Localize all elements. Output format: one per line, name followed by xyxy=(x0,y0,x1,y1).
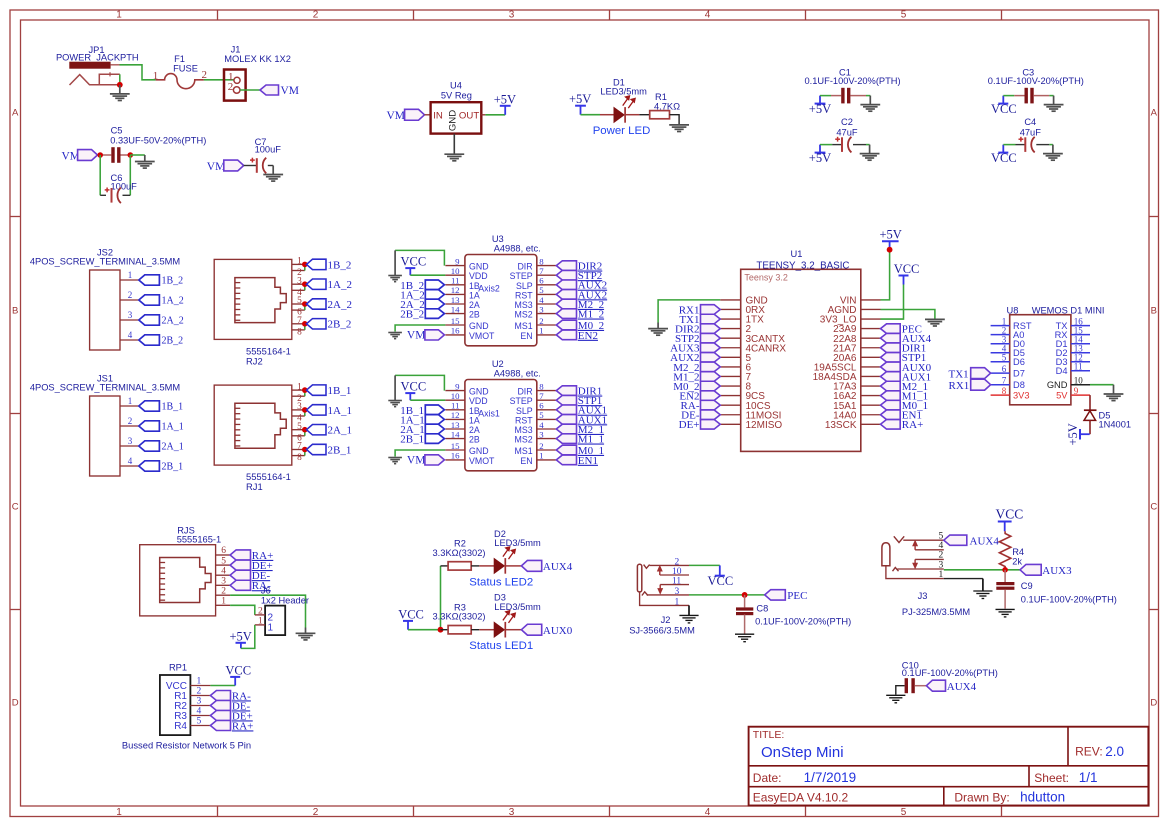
svg-text:6: 6 xyxy=(221,546,226,556)
svg-text:0.1UF-100V-20%(PTH): 0.1UF-100V-20%(PTH) xyxy=(988,76,1084,86)
svg-text:VM: VM xyxy=(407,455,426,467)
capacitor C7 100uF xyxy=(244,137,282,173)
svg-text:7: 7 xyxy=(1002,376,1007,386)
svg-text:M1_1: M1_1 xyxy=(578,434,604,446)
svg-text:AUX3: AUX3 xyxy=(1042,565,1072,577)
svg-text:RJ2: RJ2 xyxy=(246,355,263,366)
svg-text:OnStep Mini: OnStep Mini xyxy=(761,744,844,761)
svg-text:5: 5 xyxy=(221,556,226,566)
net flag 2A_2 xyxy=(139,315,184,327)
power VCC xyxy=(401,380,427,401)
svg-text:RST: RST xyxy=(515,290,533,300)
net flag EN2 xyxy=(679,391,720,403)
net flag 2B_2 xyxy=(302,319,351,331)
svg-text:GND: GND xyxy=(448,110,459,131)
svg-text:5: 5 xyxy=(938,532,943,542)
svg-text:U1: U1 xyxy=(791,249,803,259)
LED D3 LED3/5mm xyxy=(479,593,541,638)
connector JP1 POWER_JACKPTH xyxy=(56,45,139,85)
svg-text:0.33UF-50V-20%(PTH): 0.33UF-50V-20%(PTH) xyxy=(110,136,206,146)
power +5V xyxy=(809,145,831,166)
svg-text:LED3/5mm: LED3/5mm xyxy=(600,86,647,96)
net flag M0_2 xyxy=(556,320,604,332)
net flag RA- xyxy=(681,400,721,412)
svg-text:C8: C8 xyxy=(756,604,768,614)
svg-text:2.0: 2.0 xyxy=(1105,744,1124,759)
svg-text:4: 4 xyxy=(539,295,544,305)
wire xyxy=(240,89,260,91)
svg-text:PJ-325M/3.5MM: PJ-325M/3.5MM xyxy=(902,607,970,617)
net flag 1B_1 xyxy=(400,405,444,417)
svg-text:B: B xyxy=(1151,306,1157,317)
svg-text:Status LED2: Status LED2 xyxy=(469,576,533,588)
wire xyxy=(395,450,445,457)
svg-text:OUT: OUT xyxy=(459,110,479,121)
svg-text:POWER_JACKPTH: POWER_JACKPTH xyxy=(56,52,139,62)
svg-text:2: 2 xyxy=(539,441,543,451)
net flag STP2 xyxy=(556,270,602,282)
stepper driver U2 A4988 xyxy=(445,359,556,471)
net flag TX1 xyxy=(679,314,720,326)
svg-text:Status LED1: Status LED1 xyxy=(469,640,533,652)
net flag M0_2 xyxy=(673,381,720,393)
svg-text:DE+: DE+ xyxy=(679,419,700,431)
svg-text:C9: C9 xyxy=(1021,581,1033,591)
svg-text:11: 11 xyxy=(672,577,681,587)
net flag RX1 xyxy=(949,379,991,392)
svg-text:16: 16 xyxy=(451,326,460,336)
svg-text:Drawn By:: Drawn By: xyxy=(954,791,1009,805)
svg-text:VCC: VCC xyxy=(401,380,427,394)
svg-text:4: 4 xyxy=(705,807,711,818)
svg-text:1x2 Header: 1x2 Header xyxy=(261,595,309,605)
ground xyxy=(263,166,283,182)
ground xyxy=(679,605,698,623)
svg-text:5: 5 xyxy=(539,410,544,420)
net flag DE+ xyxy=(210,710,252,722)
net flag 1A_2 xyxy=(302,279,352,291)
svg-text:GND: GND xyxy=(469,321,489,331)
svg-text:VDD: VDD xyxy=(469,271,488,281)
net flag 2B_1 xyxy=(400,434,444,446)
svg-text:3.3KΩ(3302): 3.3KΩ(3302) xyxy=(433,548,486,558)
svg-text:4POS_SCREW_TERMINAL_3.5MM: 4POS_SCREW_TERMINAL_3.5MM xyxy=(30,383,180,393)
svg-text:8: 8 xyxy=(297,328,302,338)
net flag AUX4 xyxy=(944,535,1000,547)
capacitor C4 47uF xyxy=(1003,117,1053,152)
svg-text:TX1: TX1 xyxy=(949,369,969,381)
svg-text:4: 4 xyxy=(197,707,202,717)
power +5V xyxy=(1066,423,1090,445)
net flag DIR1 xyxy=(556,386,602,398)
connector J3 PJ-325M/3.5MM xyxy=(882,532,970,618)
svg-text:1B_2: 1B_2 xyxy=(328,259,352,271)
svg-text:5: 5 xyxy=(901,807,907,818)
wire xyxy=(689,564,720,566)
ground xyxy=(944,579,993,599)
power VCC xyxy=(398,607,424,629)
svg-text:2B_1: 2B_1 xyxy=(400,434,424,446)
svg-text:5: 5 xyxy=(539,285,544,295)
net flag 1A_2 xyxy=(400,290,444,302)
net flag M2_2 xyxy=(673,362,720,374)
svg-text:2: 2 xyxy=(258,607,263,617)
ground xyxy=(996,609,1015,617)
net flag DE- xyxy=(230,570,270,582)
svg-text:EN: EN xyxy=(520,456,532,466)
net flag 1A_1 xyxy=(139,421,184,433)
svg-text:GND: GND xyxy=(1047,380,1068,390)
net flag AUX2 xyxy=(670,352,720,364)
svg-text:2B_2: 2B_2 xyxy=(162,336,184,347)
ground xyxy=(925,319,945,326)
svg-text:D7: D7 xyxy=(1013,369,1025,379)
svg-text:VM: VM xyxy=(407,330,426,342)
svg-text:B: B xyxy=(12,306,18,317)
capacitor C10 0.1UF-100V-20%(PTH) xyxy=(896,660,998,694)
svg-text:2k: 2k xyxy=(1012,557,1022,567)
label Status LED2 xyxy=(469,576,533,588)
power VCC xyxy=(991,145,1017,166)
svg-text:14: 14 xyxy=(451,304,460,314)
svg-text:+5V: +5V xyxy=(1066,423,1080,445)
ground xyxy=(110,85,130,101)
svg-text:1: 1 xyxy=(675,597,680,607)
svg-text:2B: 2B xyxy=(469,435,480,445)
wire xyxy=(100,155,145,195)
svg-text:2: 2 xyxy=(938,551,943,561)
svg-text:5: 5 xyxy=(901,10,907,21)
svg-text:STEP: STEP xyxy=(510,271,533,281)
svg-text:Sheet:: Sheet: xyxy=(1034,771,1069,785)
svg-text:2A_1: 2A_1 xyxy=(162,442,184,453)
svg-text:6: 6 xyxy=(1002,364,1007,374)
svg-text:3: 3 xyxy=(297,276,302,286)
svg-text:11: 11 xyxy=(451,401,459,411)
svg-text:2: 2 xyxy=(313,10,319,21)
svg-text:4CANRX: 4CANRX xyxy=(746,343,787,354)
net flag 1A_1 xyxy=(302,405,352,417)
svg-text:8: 8 xyxy=(539,381,544,391)
svg-text:VCC: VCC xyxy=(225,663,251,677)
svg-text:3: 3 xyxy=(297,402,302,412)
svg-text:1: 1 xyxy=(539,326,543,336)
net flag STP2 xyxy=(675,333,720,345)
svg-text:EN2: EN2 xyxy=(578,330,598,342)
svg-text:VM: VM xyxy=(207,161,226,173)
svg-text:J2: J2 xyxy=(661,615,671,625)
wire xyxy=(120,65,156,85)
svg-text:MS2: MS2 xyxy=(515,435,533,445)
svg-text:2B_2: 2B_2 xyxy=(400,309,424,321)
label Bussed Resistor Network 5 Pin xyxy=(122,739,251,750)
svg-text:AUX4: AUX4 xyxy=(947,681,977,693)
LED D2 LED3/5mm xyxy=(479,529,541,574)
svg-text:1A_1: 1A_1 xyxy=(328,405,352,417)
svg-text:1A_2: 1A_2 xyxy=(162,296,184,307)
power +5V xyxy=(880,228,902,250)
net flag 2A_2 xyxy=(302,299,352,311)
svg-text:Axis2: Axis2 xyxy=(478,283,500,293)
svg-text:1A_1: 1A_1 xyxy=(162,422,184,433)
svg-text:1: 1 xyxy=(539,451,543,461)
svg-text:13: 13 xyxy=(451,420,460,430)
svg-text:12: 12 xyxy=(451,410,460,420)
svg-text:2A: 2A xyxy=(469,425,480,435)
svg-text:SLP: SLP xyxy=(516,281,533,291)
svg-text:2B_1: 2B_1 xyxy=(162,462,184,473)
net flag M1_1 xyxy=(556,434,604,446)
svg-text:D: D xyxy=(12,698,19,709)
svg-text:RX1: RX1 xyxy=(949,380,970,392)
wire xyxy=(881,250,890,300)
net flag AUX0 xyxy=(521,624,572,637)
power +5V xyxy=(809,96,831,117)
net flag M2_2 xyxy=(556,299,604,311)
svg-text:16: 16 xyxy=(451,451,460,461)
net flag 1A_1 xyxy=(400,415,444,427)
svg-text:LED3/5mm: LED3/5mm xyxy=(494,538,541,548)
net flag RA+ xyxy=(210,720,253,732)
net flag AUX3 xyxy=(670,343,720,355)
svg-text:3: 3 xyxy=(509,807,515,818)
svg-text:SLP: SLP xyxy=(516,406,533,416)
svg-text:Axis1: Axis1 xyxy=(478,408,500,418)
svg-text:3: 3 xyxy=(128,436,133,446)
net flag 1B_1 xyxy=(139,401,183,413)
svg-text:2B_2: 2B_2 xyxy=(328,319,352,331)
svg-text:13: 13 xyxy=(451,295,460,305)
connector RJ2 5555164-1 xyxy=(214,257,305,367)
net flag RA+ xyxy=(881,419,924,431)
svg-text:DIR: DIR xyxy=(517,387,532,397)
svg-text:12: 12 xyxy=(451,285,460,295)
svg-text:7: 7 xyxy=(297,442,302,452)
svg-text:0.1UF-100V-20%(PTH): 0.1UF-100V-20%(PTH) xyxy=(902,668,998,678)
net flag 2B_2 xyxy=(400,309,444,321)
svg-text:3: 3 xyxy=(197,697,202,707)
stepper driver U3 A4988 xyxy=(445,234,556,346)
svg-text:TITLE:: TITLE: xyxy=(753,729,785,741)
svg-text:VM: VM xyxy=(387,110,406,122)
svg-text:D4: D4 xyxy=(1056,366,1068,376)
capacitor C9 0.1UF-100V-20%(PTH) xyxy=(996,570,1117,609)
capacitor C1 0.1UF-100V-20%(PTH) xyxy=(805,67,901,103)
svg-text:10: 10 xyxy=(1074,376,1084,386)
net flag M2_1 xyxy=(881,381,929,393)
power VCC xyxy=(225,663,251,685)
svg-text:REV:: REV: xyxy=(1075,745,1103,759)
svg-text:10: 10 xyxy=(451,391,460,401)
label Power LED xyxy=(593,125,651,137)
svg-text:2A_1: 2A_1 xyxy=(328,425,352,437)
svg-text:PEC: PEC xyxy=(787,590,807,602)
svg-text:2A_2: 2A_2 xyxy=(162,316,184,327)
svg-text:3: 3 xyxy=(128,310,133,320)
svg-text:2: 2 xyxy=(197,687,202,697)
net flag M0_1 xyxy=(881,400,929,412)
svg-text:5: 5 xyxy=(297,296,302,306)
net flag 2A_1 xyxy=(302,425,352,437)
svg-text:F1: F1 xyxy=(174,54,185,64)
svg-text:C5: C5 xyxy=(111,126,123,136)
svg-text:1: 1 xyxy=(938,570,943,580)
svg-text:J1: J1 xyxy=(231,44,241,54)
net flag DIR1 xyxy=(881,343,927,355)
net flag EN1 xyxy=(881,410,922,422)
net flag M1_2 xyxy=(673,371,720,383)
svg-text:3: 3 xyxy=(509,10,515,21)
svg-text:VCC: VCC xyxy=(398,607,424,621)
junction xyxy=(97,152,133,158)
svg-text:VCC: VCC xyxy=(401,255,427,269)
svg-text:GND: GND xyxy=(469,262,489,272)
net flag M1_2 xyxy=(556,309,604,321)
net flag AUX1 xyxy=(556,414,607,426)
connector J2 SJ-3566/3.5MM xyxy=(629,557,695,635)
net flag DE- xyxy=(681,410,720,422)
LED D1 LED3/5mm xyxy=(600,77,647,122)
wire xyxy=(944,569,1020,571)
ground xyxy=(669,125,689,132)
ground xyxy=(860,145,880,161)
svg-text:1: 1 xyxy=(116,807,122,818)
svg-text:1B_2: 1B_2 xyxy=(162,276,184,287)
svg-text:15: 15 xyxy=(451,441,460,451)
svg-text:EN1: EN1 xyxy=(578,455,598,467)
svg-text:9: 9 xyxy=(1074,386,1079,396)
ground xyxy=(135,155,155,168)
svg-text:MS3: MS3 xyxy=(515,425,533,435)
svg-text:3: 3 xyxy=(675,587,680,597)
svg-text:7: 7 xyxy=(297,316,302,326)
net flag DE- xyxy=(210,700,250,712)
net flag AUX4 xyxy=(521,560,572,573)
svg-text:5: 5 xyxy=(1002,353,1007,363)
ground xyxy=(886,695,905,703)
net flag RA- xyxy=(230,580,271,592)
svg-text:GND: GND xyxy=(469,387,489,397)
power VCC xyxy=(991,96,1017,117)
svg-text:FUSE: FUSE xyxy=(173,64,198,74)
resistor R2 3.3K xyxy=(433,539,486,571)
capacitor C3 0.1UF-100V-20%(PTH) xyxy=(988,67,1084,103)
svg-text:4: 4 xyxy=(938,541,943,551)
ground xyxy=(735,634,754,642)
svg-text:VCC: VCC xyxy=(996,507,1024,522)
svg-text:+5V: +5V xyxy=(809,151,831,165)
power +5V xyxy=(494,92,516,115)
svg-text:1A_2: 1A_2 xyxy=(328,279,352,291)
net flag DIR2 xyxy=(675,324,720,336)
svg-text:3: 3 xyxy=(221,577,226,587)
junction xyxy=(1002,567,1008,573)
svg-text:2: 2 xyxy=(128,290,133,300)
svg-text:Bussed Resistor Network 5 Pin: Bussed Resistor Network 5 Pin xyxy=(122,739,251,750)
svg-text:8: 8 xyxy=(1002,386,1007,396)
svg-text:2A_2: 2A_2 xyxy=(328,299,352,311)
wire xyxy=(408,566,441,630)
net flag VM xyxy=(407,330,445,342)
net flag 2A_2 xyxy=(400,299,444,311)
net flag 1B_2 xyxy=(400,280,444,292)
net flag 2A_1 xyxy=(139,441,184,453)
svg-text:4: 4 xyxy=(128,330,133,340)
svg-text:VMOT: VMOT xyxy=(469,331,495,341)
svg-text:2: 2 xyxy=(221,586,226,596)
svg-text:2: 2 xyxy=(313,807,319,818)
svg-text:C4: C4 xyxy=(1024,117,1036,127)
connector RJS 5555165-1 xyxy=(140,525,230,616)
regulator U4 5V Reg xyxy=(425,81,486,134)
svg-text:R4: R4 xyxy=(174,721,187,732)
net flag AUX4 xyxy=(926,680,976,693)
svg-text:1: 1 xyxy=(297,382,302,392)
svg-text:1N4001: 1N4001 xyxy=(1099,420,1132,430)
svg-text:VCC: VCC xyxy=(894,262,920,276)
power +5V xyxy=(569,92,591,115)
svg-text:VDD: VDD xyxy=(469,396,488,406)
svg-text:1/1: 1/1 xyxy=(1079,770,1098,785)
svg-text:100uF: 100uF xyxy=(255,145,282,155)
net flag EN2 xyxy=(556,330,598,342)
label Status LED1 xyxy=(469,640,533,652)
wire xyxy=(230,595,305,627)
net flag 2B_1 xyxy=(302,444,351,456)
title block xyxy=(749,727,1149,806)
svg-text:A: A xyxy=(12,108,19,119)
svg-text:DIR: DIR xyxy=(517,262,532,272)
net flag 2B_1 xyxy=(139,461,183,473)
svg-text:MOLEX KK 1X2: MOLEX KK 1X2 xyxy=(224,54,291,64)
svg-text:3.3KΩ(3302): 3.3KΩ(3302) xyxy=(433,612,486,622)
svg-text:D8: D8 xyxy=(1013,380,1025,390)
ground xyxy=(860,96,880,112)
net flag RA- xyxy=(210,690,251,702)
wire xyxy=(1090,384,1114,386)
net flag 1A_2 xyxy=(139,295,184,307)
svg-text:5: 5 xyxy=(197,717,202,727)
svg-text:0.1UF-100V-20%(PTH): 0.1UF-100V-20%(PTH) xyxy=(805,76,901,86)
net flag M2_1 xyxy=(556,424,604,436)
net flag RA+ xyxy=(230,550,273,562)
ground xyxy=(648,323,668,336)
svg-text:7: 7 xyxy=(539,266,544,276)
power VCC xyxy=(996,507,1024,532)
wire xyxy=(304,390,306,456)
svg-text:hdutton: hdutton xyxy=(1020,790,1065,805)
resistor network RP1 xyxy=(160,662,211,735)
svg-text:C2: C2 xyxy=(841,117,853,127)
svg-text:10: 10 xyxy=(451,266,460,276)
fuse F1 xyxy=(153,54,207,88)
net flag 2A_1 xyxy=(400,424,444,436)
svg-text:12MISO: 12MISO xyxy=(746,420,783,431)
connector J6 1x2 Header xyxy=(255,585,309,635)
svg-text:EasyEDA V4.10.2: EasyEDA V4.10.2 xyxy=(753,791,849,805)
wire xyxy=(881,285,904,320)
svg-text:M1_2: M1_2 xyxy=(578,309,604,321)
svg-text:1: 1 xyxy=(221,597,226,607)
ground xyxy=(388,250,402,281)
svg-text:C: C xyxy=(12,502,19,513)
svg-text:4POS_SCREW_TERMINAL_3.5MM: 4POS_SCREW_TERMINAL_3.5MM xyxy=(30,257,180,267)
svg-text:1: 1 xyxy=(128,270,133,280)
svg-text:EN: EN xyxy=(520,331,532,341)
svg-text:2B: 2B xyxy=(469,310,480,320)
ground xyxy=(388,333,402,339)
svg-text:2A: 2A xyxy=(469,300,480,310)
